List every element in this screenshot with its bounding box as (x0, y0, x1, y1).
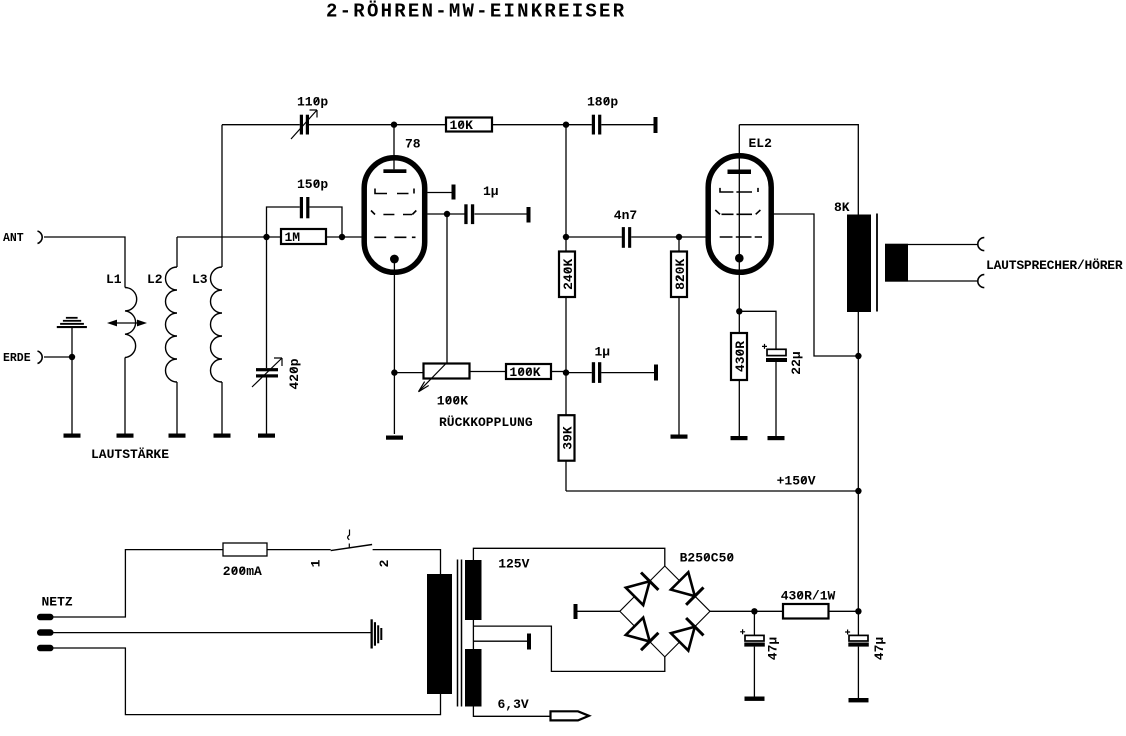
terminal bar 1u right (527, 207, 531, 223)
svg-text:1µ: 1µ (595, 345, 611, 360)
wire 125V top to bridge (473, 548, 664, 566)
svg-text:1µ: 1µ (483, 184, 499, 199)
tube EL2 grid 2 (715, 210, 760, 214)
transformer secondary 125V (465, 556, 530, 620)
svg-text:8K: 8K (834, 200, 850, 215)
resistor 39K (559, 373, 576, 491)
wire ANT to L1 (44, 237, 125, 288)
resistor 100K (506, 364, 551, 380)
terminal bar under L2 (169, 434, 186, 438)
capacitor 47u second (845, 611, 887, 698)
transformer core (458, 560, 462, 707)
inductor L1 (106, 272, 137, 358)
tube 78 grid 1 (375, 189, 414, 194)
svg-text:EL2: EL2 (749, 136, 773, 151)
terminal bar under cathode (386, 436, 403, 440)
wire 1M to tube grid (326, 236, 362, 238)
terminal bar under 47u first (745, 697, 765, 701)
wire bridge plus stub (710, 610, 783, 612)
wire EL2 screen grid right (771, 214, 858, 356)
svg-text:240K: 240K (561, 259, 576, 290)
resistor 1M (281, 229, 326, 245)
transformer 8K core (876, 214, 878, 312)
node +150V junction (855, 488, 861, 494)
coupling arrow through L1 (107, 320, 147, 327)
node ERDE junction (69, 354, 75, 360)
svg-text:39K: 39K (560, 426, 575, 450)
terminal bar under 430R (731, 436, 748, 440)
wire top rail y=124 (222, 124, 300, 126)
svg-text:6,3V: 6,3V (498, 697, 529, 712)
speaker (885, 244, 908, 282)
tube 78 anode (383, 125, 406, 173)
wire NETZ top pin (54, 550, 224, 617)
wire EL2 anode to transformer (739, 125, 858, 215)
connector speaker bottom (978, 275, 985, 288)
wire ERDE (44, 356, 72, 358)
capacitor 4n7 (566, 208, 679, 248)
diode D4 bottom-right (671, 618, 704, 651)
node grid2 junction (444, 211, 450, 217)
svg-text:820K: 820K (673, 259, 688, 290)
tube EL2 cathode (735, 254, 744, 263)
wire EL2 cathode down (738, 258, 740, 333)
terminal bar under 22u (768, 436, 785, 440)
node 180p junction (563, 122, 569, 128)
node junction 420p/150p (263, 234, 269, 240)
wire 10K to 180p (492, 124, 592, 126)
wire cathode down (393, 259, 395, 434)
connector ANT (3, 231, 42, 245)
terminal bar grid1 (452, 185, 456, 200)
resistor 240K (559, 237, 576, 373)
svg-text:RÜCKKOPPLUNG: RÜCKKOPPLUNG (439, 414, 533, 430)
wire grid1 to terminal (428, 192, 452, 194)
svg-text:LAUTSPRECHER/HÖRER: LAUTSPRECHER/HÖRER (986, 257, 1123, 273)
connector ERDE (3, 351, 42, 365)
wire L1 bottom (124, 358, 126, 435)
svg-text:100K: 100K (509, 365, 540, 380)
connector speaker top (978, 238, 985, 251)
node 4n7 left top (563, 234, 569, 240)
svg-text:B250C50: B250C50 (680, 551, 735, 566)
diode D1 top-left (626, 573, 659, 606)
svg-text:ANT: ANT (3, 232, 24, 245)
wire 100K to node (551, 371, 566, 373)
transformer primary winding (427, 574, 452, 694)
resistor 430R/1W (781, 589, 836, 619)
wire 4n7 to EL2 grid (679, 236, 706, 238)
svg-text:1: 1 (309, 559, 324, 567)
svg-text:100K: 100K (437, 394, 468, 409)
svg-text:L2: L2 (147, 272, 163, 287)
node 4n7 right (676, 234, 682, 240)
svg-text:430R: 430R (733, 341, 748, 372)
wire NETZ mid pin (54, 632, 371, 634)
wire speaker top (908, 244, 978, 246)
wire grid2 node down to pot wiper (446, 214, 448, 364)
node 150p right junction (339, 234, 345, 240)
connector NETZ pins (37, 595, 73, 652)
capacitor 1u coupling top (464, 184, 526, 224)
svg-text:LAUTSTÄRKE: LAUTSTÄRKE (91, 447, 169, 462)
tube EL2 center conductor (738, 174, 740, 254)
terminal bar under 47u second (849, 698, 869, 702)
tube EL2 grid 3 (720, 236, 762, 238)
capacitor 1u lower (566, 345, 654, 383)
transformer secondary 6,3V (465, 649, 529, 712)
wire fuse to switch (267, 549, 331, 551)
resistor 10K (446, 118, 492, 133)
svg-text:+150V: +150V (777, 474, 816, 489)
wire cathode node to 22u (739, 311, 776, 349)
capacitor 22u electrolytic (762, 344, 804, 436)
svg-text:10K: 10K (450, 118, 474, 133)
wire grid rail y=237 (177, 236, 280, 238)
tube 78 (364, 137, 425, 273)
wire bridge minus stub (578, 610, 620, 612)
diode D2 top-right (671, 572, 704, 605)
svg-text:110p: 110p (297, 95, 328, 110)
svg-text:430R/1W: 430R/1W (781, 589, 836, 604)
svg-text:22µ: 22µ (789, 351, 804, 374)
tube EL2 anode (728, 125, 752, 174)
terminal bar 180p right (654, 117, 658, 133)
wire L3 bottom (221, 382, 223, 434)
node bridge plus (751, 608, 757, 614)
bridge rectifier B250C50 (620, 551, 735, 657)
tube 78 grid 3 (374, 236, 415, 238)
wire NETZ bottom pin (54, 648, 441, 715)
inductor L3 (192, 267, 222, 382)
terminal bar under 420p (258, 434, 275, 438)
node cathode junction (391, 369, 397, 375)
svg-text:ERDE: ERDE (3, 352, 31, 365)
slashed zeros overlay (232, 97, 806, 598)
node cathode EL2 junction (736, 308, 742, 314)
node anode junction (391, 122, 397, 128)
node 430R/1W right (855, 608, 861, 614)
terminal bar under L1 (117, 434, 134, 438)
wire grid2 to 1u (428, 213, 465, 215)
terminal bar under 820K (671, 435, 688, 439)
svg-text:L3: L3 (192, 272, 208, 287)
svg-text:200mA: 200mA (223, 564, 262, 579)
wire ERDE down (71, 357, 73, 434)
wire center tap (473, 620, 664, 671)
svg-text:L1: L1 (106, 272, 122, 287)
svg-text:420p: 420p (287, 358, 302, 389)
wire interstage node vertical (565, 125, 567, 237)
capacitor 150p with wires (267, 177, 343, 237)
svg-text:125V: 125V (498, 556, 529, 571)
wire pot to 100K resistor (470, 371, 507, 373)
inductor L2 (147, 267, 177, 382)
wire switch to transformer (373, 550, 441, 574)
wire L2 bottom (176, 382, 178, 434)
wire +150V rail (566, 474, 858, 492)
wire 8K bottom down (857, 312, 859, 611)
terminal bar 1u lower right (654, 365, 658, 381)
terminal bar under ERDE (64, 434, 81, 438)
diode D3 bottom-left (626, 618, 659, 651)
resistor 430R (731, 333, 748, 436)
resistor 820K (671, 237, 688, 435)
capacitor 180p (587, 94, 654, 134)
node screen/8K junction (855, 353, 861, 359)
svg-text:150p: 150p (297, 177, 328, 192)
potentiometer 100K RÜCKKOPPLUNG (394, 364, 532, 431)
capacitor 420p variable (252, 237, 302, 434)
switch (309, 530, 393, 568)
wire 6,3V bottom to plug (473, 707, 550, 717)
wire L3 top up to 110p rail (221, 125, 223, 267)
tube 78 cathode (390, 255, 399, 264)
tube EL2 (708, 136, 772, 272)
svg-text:47µ: 47µ (766, 637, 781, 660)
terminal bar bridge minus (574, 604, 578, 619)
wire L2 top (176, 237, 178, 267)
svg-text:2-RÖHREN-MW-EINKREISER: 2-RÖHREN-MW-EINKREISER (326, 1, 626, 23)
svg-text:NETZ: NETZ (42, 595, 73, 610)
terminal bar under L3 (214, 434, 231, 438)
transformer 8K primary (834, 200, 871, 312)
svg-text:78: 78 (405, 137, 421, 152)
terminal bar center tap (527, 634, 531, 650)
connector plug 6,3V (551, 711, 590, 720)
svg-text:47µ: 47µ (872, 637, 887, 660)
svg-text:4n7: 4n7 (614, 208, 637, 223)
earth ground symbol (57, 317, 87, 357)
wire speaker bottom (908, 280, 978, 282)
wire 110p to 10K (309, 124, 446, 126)
fuse 200mA (223, 543, 267, 579)
capacitor 47u first (740, 611, 780, 696)
tube 78 grid 2 (371, 211, 416, 215)
svg-text:180p: 180p (587, 94, 618, 109)
node 100K/1u/39K junction (563, 369, 569, 375)
svg-text:1M: 1M (285, 230, 301, 245)
tube EL2 grid 1 (720, 188, 758, 192)
wire 430R/1W to node (829, 610, 859, 612)
capacitor 110p variable (291, 95, 328, 140)
chassis ground symbol (371, 619, 383, 648)
svg-text:2: 2 (377, 559, 392, 567)
